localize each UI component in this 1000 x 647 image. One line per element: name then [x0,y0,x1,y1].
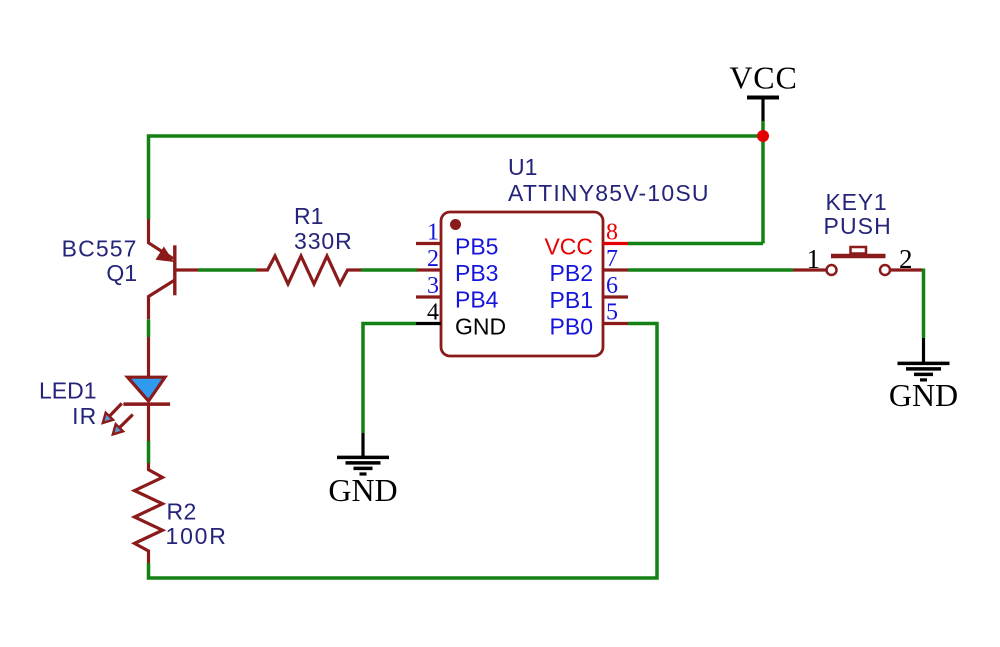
LED emission arrow 1 [103,403,122,423]
transistor Q1 base bar [173,245,176,295]
pin 3 stub [416,295,441,298]
svg-text:7: 7 [606,246,618,272]
svg-text:PB2: PB2 [550,260,593,286]
svg-text:ATTINY85V-10SU: ATTINY85V-10SU [508,180,710,206]
svg-text:2: 2 [427,246,439,272]
node junction dot [757,130,769,142]
svg-text:PB0: PB0 [550,314,593,340]
pin 4 stub (GND, black) [416,322,441,325]
ground lead right [922,338,925,363]
ground left symbol [328,457,397,508]
wire VCC junction down to pin8 [761,121,765,244]
resistor R2 [135,463,163,563]
svg-text:PB1: PB1 [550,287,593,313]
svg-text:1: 1 [807,244,821,274]
power VCC symbol [729,60,797,122]
svg-text:4: 4 [427,300,439,326]
svg-text:PB5: PB5 [455,234,498,260]
wire base to R1 [198,268,257,272]
wire base red part [176,268,198,271]
pin 8 stub (VCC, red) [603,242,628,245]
svg-text:100R: 100R [166,523,228,549]
svg-text:330R: 330R [294,228,353,254]
transistor Q1 collector lead [149,280,175,319]
resistor R1 [257,256,362,284]
transistor Q1 emitter arrow [156,247,175,263]
svg-text:GND: GND [455,314,506,340]
svg-text:IR: IR [72,403,97,429]
svg-text:KEY1: KEY1 [826,189,888,215]
svg-text:U1: U1 [508,154,537,180]
LED anode lead [147,337,150,377]
svg-text:PB4: PB4 [455,287,499,313]
svg-text:PB3: PB3 [455,260,498,286]
svg-text:6: 6 [606,273,618,299]
wire pin4 to GND [363,324,416,434]
wire pin7 to key [628,268,793,272]
svg-text:PUSH: PUSH [824,213,892,239]
wire key to GND right [922,269,926,339]
svg-text:8: 8 [606,220,618,246]
pin 2 stub [416,268,441,271]
svg-text:LED1: LED1 [39,378,97,404]
wire bottom from R2 to pin5 [149,324,658,579]
LED emission arrow 2 [113,415,133,435]
svg-text:R2: R2 [167,499,197,525]
wire R1 to pin2 [361,268,417,272]
svg-text:GND: GND [328,472,397,508]
LED cathode bar [123,402,170,406]
LED cathode lead down [147,404,150,441]
key pin2 lead [891,268,924,271]
svg-text:VCC: VCC [544,234,593,260]
svg-text:VCC: VCC [729,60,797,96]
ground right symbol [889,363,958,413]
pin 5 stub [603,322,628,325]
svg-text:GND: GND [889,377,958,413]
svg-text:Q1: Q1 [106,260,137,286]
svg-text:R1: R1 [294,203,323,229]
wire collector to LED [147,319,151,337]
LED D1 triangle [128,377,165,401]
pin 6 stub [603,295,628,298]
transistor Q1 emitter lead [149,219,174,259]
switch KEY1 [827,247,891,275]
ground lead left [361,433,364,457]
op chip U1 body [441,212,603,356]
pin 7 stub [603,268,628,271]
svg-text:BC557: BC557 [62,236,138,262]
svg-text:3: 3 [427,273,439,299]
wire top horizontal + left vertical [149,136,764,219]
chip pin1 marker dot [450,219,461,230]
wire pin8 horizontal [628,242,763,246]
svg-text:1: 1 [427,220,439,246]
key pin1 lead [793,268,827,271]
wire LED to R2 [147,441,151,463]
svg-text:5: 5 [606,300,618,326]
pin 1 stub [416,242,441,245]
